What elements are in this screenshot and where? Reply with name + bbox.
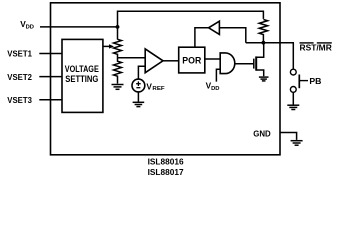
label VOLTAGE SETTING xyxy=(65,64,99,84)
IC outline box xyxy=(51,3,281,155)
transistor Q1 (N-MOSFET) xyxy=(253,59,255,69)
wire RST/MR xyxy=(246,43,293,69)
resistor R3 (pull-up) xyxy=(259,20,267,43)
svg-text:VOLTAGE: VOLTAGE xyxy=(65,64,99,74)
wire AND output to MOSFET gate xyxy=(235,63,254,65)
resistor R2 (divider bottom) xyxy=(114,58,122,84)
wire RST node to buffer input xyxy=(219,28,245,43)
block POR xyxy=(179,47,205,73)
svg-text:POR: POR xyxy=(182,55,201,65)
svg-text:VSET2: VSET2 xyxy=(7,72,32,82)
svg-text:VSET3: VSET3 xyxy=(7,95,32,105)
wire VREF to comparator - input xyxy=(138,66,145,79)
wire VSET3 xyxy=(39,99,62,101)
wire VSET2 xyxy=(39,76,62,78)
ground (MOSFET source) xyxy=(259,77,269,81)
overline MR xyxy=(317,42,332,44)
wire PB to ground xyxy=(292,92,294,104)
svg-text:RST/MR: RST/MR xyxy=(300,43,332,53)
resistor R1 (divider top) xyxy=(114,39,122,57)
wire buffer output to POR top xyxy=(195,28,209,47)
node RST junction xyxy=(262,41,266,45)
ground (VREF) xyxy=(133,102,145,106)
svg-text:DD: DD xyxy=(26,25,34,31)
svg-text:ISL88016: ISL88016 xyxy=(148,157,184,167)
label VREF xyxy=(146,81,165,92)
wire VREF to ground xyxy=(137,92,139,102)
svg-text:VSET1: VSET1 xyxy=(7,49,32,59)
switch PB xyxy=(290,69,296,75)
wire divider tap to comparator + xyxy=(118,57,146,59)
wire VDD rail (to pull-up) xyxy=(118,11,264,39)
ground (GND pin) xyxy=(291,141,303,146)
wire GND pin xyxy=(280,133,297,140)
wire VSET1 xyxy=(39,53,62,55)
trim arrow to divider xyxy=(103,45,110,47)
overline RST xyxy=(300,42,314,44)
svg-text:REF: REF xyxy=(152,86,165,92)
svg-text:GND: GND xyxy=(253,128,271,138)
buffer U2 (left-pointing triangle) xyxy=(209,21,220,34)
and-gate U3 xyxy=(220,53,235,74)
ground (divider) xyxy=(112,85,124,90)
svg-text:DD: DD xyxy=(211,86,219,92)
wire POR output to AND gate xyxy=(205,58,220,60)
svg-text:ISL88017: ISL88017 xyxy=(148,167,184,177)
voltage source VREF xyxy=(132,79,145,92)
wire comparator output to POR xyxy=(163,60,179,62)
svg-text:SETTING: SETTING xyxy=(65,74,98,84)
comparator U1 xyxy=(145,49,163,73)
wire AND lower input from VDD xyxy=(216,69,220,81)
wire VDD pin xyxy=(40,26,118,28)
pin label VDD xyxy=(20,19,34,31)
label VDD (AND gate input) xyxy=(206,81,220,92)
ground (PB) xyxy=(287,105,299,109)
svg-text:PB: PB xyxy=(309,76,321,86)
block VOLTAGE SETTING xyxy=(62,39,103,112)
node VDD junction xyxy=(116,25,120,29)
